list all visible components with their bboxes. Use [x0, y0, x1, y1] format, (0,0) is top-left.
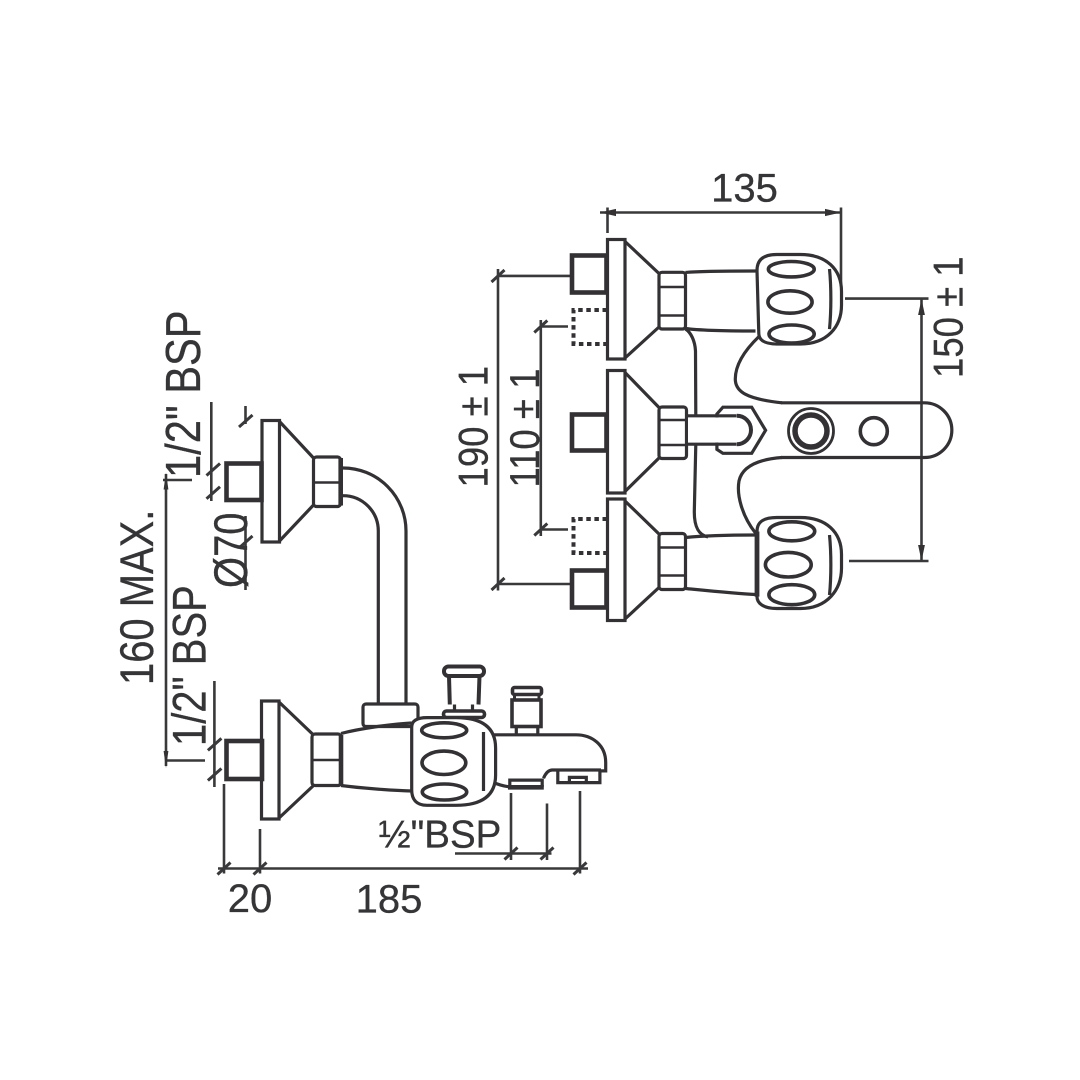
svg-text:Ø70: Ø70: [206, 512, 258, 588]
svg-text:110 ± 1: 110 ± 1: [502, 369, 549, 488]
svg-text:190 ± 1: 190 ± 1: [450, 366, 497, 488]
svg-text:160 MAX.: 160 MAX.: [112, 510, 164, 685]
svg-text:20: 20: [228, 877, 273, 921]
svg-text:1/2" BSP: 1/2" BSP: [165, 585, 217, 746]
svg-text:135: 135: [711, 167, 778, 211]
svg-text:150 ± 1: 150 ± 1: [925, 256, 972, 378]
svg-text:½"BSP: ½"BSP: [379, 814, 502, 857]
svg-text:1/2" BSP: 1/2" BSP: [156, 310, 211, 478]
svg-text:185: 185: [356, 878, 423, 922]
